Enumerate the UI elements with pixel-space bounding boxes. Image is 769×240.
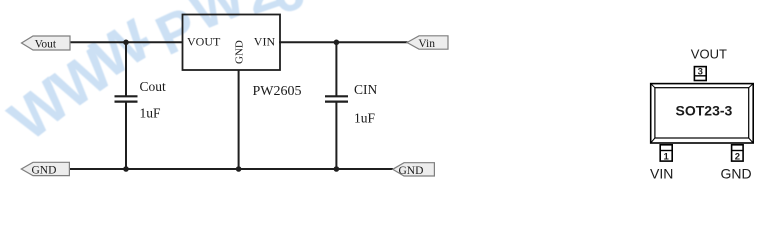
svg-text:1uF: 1uF — [354, 111, 376, 126]
svg-text:1uF: 1uF — [140, 106, 162, 121]
svg-text:Vin: Vin — [418, 38, 435, 50]
svg-text:GND: GND — [721, 166, 752, 182]
svg-text:3: 3 — [698, 66, 703, 77]
svg-text:CIN: CIN — [354, 82, 378, 97]
svg-text:GND: GND — [32, 165, 57, 177]
svg-text:VOUT: VOUT — [187, 35, 221, 49]
svg-text:GND: GND — [399, 165, 424, 177]
svg-text:Vout: Vout — [35, 38, 57, 50]
svg-text:Cout: Cout — [140, 79, 167, 94]
svg-text:SOT23-3: SOT23-3 — [676, 103, 733, 119]
svg-text:PW2605: PW2605 — [253, 84, 302, 99]
svg-text:GND: GND — [234, 40, 246, 64]
svg-text:VIN: VIN — [650, 166, 673, 182]
svg-text:VOUT: VOUT — [691, 47, 727, 62]
svg-text:1: 1 — [664, 152, 670, 163]
svg-text:2: 2 — [735, 152, 740, 163]
svg-text:VIN: VIN — [254, 35, 276, 49]
